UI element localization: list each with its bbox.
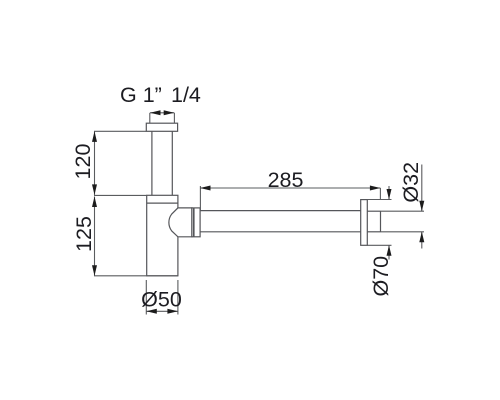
body cap rim line [147, 202, 178, 204]
svg-text:Ø70: Ø70 [369, 256, 393, 297]
dim 120 line [94, 131, 96, 195]
arrowheads O70 [387, 189, 392, 200]
arrowheads O50 [146, 309, 157, 314]
dim O50 [145, 280, 147, 315]
dim O32 extensions [381, 210, 425, 212]
svg-text:120: 120 [71, 144, 95, 180]
dim 285 line [200, 187, 380, 189]
elbow nut [192, 208, 200, 237]
arrowheads 125 [92, 197, 97, 208]
trap body cylinder [147, 195, 178, 275]
vertical inlet pipe [151, 131, 153, 195]
arrowheads O32 [419, 201, 424, 212]
dim O70 extensions [367, 199, 391, 201]
svg-text:Ø32: Ø32 [399, 162, 423, 203]
dim 125 line [94, 197, 96, 276]
arrowheads G1 1/4 [150, 110, 161, 115]
dim G1 1/4: bracket [150, 112, 174, 114]
top flange of inlet pipe [146, 123, 177, 131]
elbow outlet piece [169, 208, 192, 237]
svg-text:G 1”: G 1” [120, 83, 162, 107]
wall flange rosette [361, 200, 368, 246]
svg-text:125: 125 [72, 216, 96, 252]
svg-text:1/4: 1/4 [171, 83, 201, 107]
svg-text:Ø50: Ø50 [141, 288, 182, 312]
arrowheads 120 [92, 131, 97, 142]
arrowheads 285 [200, 186, 211, 191]
wall pipe stub [367, 210, 380, 212]
horizontal outlet pipe [200, 210, 361, 212]
svg-text:285: 285 [268, 168, 304, 192]
